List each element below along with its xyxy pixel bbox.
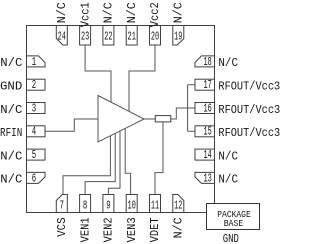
svg-text:RFOUT/Vcc3: RFOUT/Vcc3 [218,80,280,94]
pin 9 box [103,195,114,213]
svg-text:N/C: N/C [172,217,186,238]
svg-text:N/C: N/C [0,173,22,187]
wire Vcc1 pin23 to amplifier top [85,45,111,102]
svg-text:9: 9 [106,199,110,213]
svg-text:VEN3: VEN3 [125,217,139,242]
svg-text:RFIN: RFIN [0,126,22,140]
pin 7 box [56,195,67,213]
package base paddle [207,204,260,230]
svg-text:23: 23 [81,29,89,43]
pin 3 box [27,103,46,114]
svg-text:BASE: BASE [224,218,244,229]
wire amplifier output to coupler [144,118,155,120]
pin 12 box [173,195,184,213]
pin 20 box [150,26,161,46]
pin 22 box [103,26,114,46]
svg-text:6: 6 [32,171,36,185]
svg-text:N/C: N/C [218,56,238,70]
svg-text:16: 16 [203,101,211,115]
svg-text:VDET: VDET [148,217,162,242]
svg-text:N/C: N/C [0,103,22,117]
svg-text:13: 13 [203,171,211,185]
svg-text:19: 19 [174,29,182,43]
svg-text:N/C: N/C [125,2,139,23]
svg-text:N/C: N/C [0,56,22,70]
wire bus to pin15 [188,130,195,132]
svg-text:GND: GND [0,80,22,94]
wire RFIN pin4 to amplifier input [45,119,98,131]
svg-text:14: 14 [203,148,211,162]
svg-text:8: 8 [83,199,87,213]
svg-text:RFOUT/Vcc3: RFOUT/Vcc3 [218,103,280,117]
pin 15 box [195,126,215,137]
svg-text:N/C: N/C [218,149,238,163]
svg-text:N/C: N/C [102,2,116,23]
pin 18 box [195,56,215,67]
svg-text:VEN1: VEN1 [78,217,92,242]
svg-text:20: 20 [151,29,159,43]
svg-text:2: 2 [32,78,36,92]
pin 2 box [27,79,46,90]
pin 13 box [195,172,215,183]
svg-text:11: 11 [151,199,159,213]
pin 19 box [173,26,184,46]
svg-text:Vcc1: Vcc1 [78,2,92,27]
svg-text:RFOUT/Vcc3: RFOUT/Vcc3 [218,126,280,140]
pin 10 box [126,195,137,213]
package outline U1 [27,26,215,213]
pin 23 box [80,26,91,46]
svg-text:VCS: VCS [55,217,69,237]
pin 6 box [27,172,46,183]
svg-text:GND: GND [223,232,239,244]
svg-text:21: 21 [128,29,136,43]
amplifier A1 [98,96,144,143]
svg-text:N/C: N/C [55,2,69,23]
wire coupler to RFOUT pin16 [171,108,195,119]
wire coupler to VDET pin11 [155,122,163,195]
svg-text:17: 17 [203,78,211,92]
wire VCS pin7 to amplifier bottom [63,136,110,195]
svg-text:N/C: N/C [0,149,22,163]
svg-text:18: 18 [203,55,211,69]
svg-text:4: 4 [32,125,36,139]
svg-text:24: 24 [58,29,66,43]
pin 4 box [27,126,46,137]
pin 8 box [80,195,91,213]
wire VEN2 pin9 to amplifier bottom [108,131,120,195]
svg-text:VEN2: VEN2 [102,217,116,242]
pin 21 box [126,26,137,46]
RFOUT bus [187,85,189,132]
coupler element [155,116,171,122]
svg-text:N/C: N/C [218,173,238,187]
wire Vcc2 pin20 to amplifier top [129,45,155,111]
svg-text:3: 3 [32,101,36,115]
pin 14 box [195,149,215,160]
svg-text:10: 10 [128,199,136,213]
svg-text:7: 7 [60,199,64,213]
svg-text:1: 1 [32,55,36,69]
svg-text:22: 22 [104,29,112,43]
wire VEN3 pin10 to amplifier bottom [125,128,130,194]
pin 16 box [195,103,215,114]
pin 24 box [56,26,67,46]
svg-text:5: 5 [32,148,36,162]
pin 1 box [27,56,46,67]
pin 11 box [150,195,161,213]
pin 17 box [195,79,215,90]
svg-text:15: 15 [203,125,211,139]
wire VEN1 pin8 to amplifier bottom [85,133,115,194]
svg-text:Vcc2: Vcc2 [148,2,162,27]
svg-text:12: 12 [174,199,182,213]
pin 5 box [27,149,46,160]
wire bus to pin17 [188,84,195,86]
svg-text:N/C: N/C [172,2,186,23]
